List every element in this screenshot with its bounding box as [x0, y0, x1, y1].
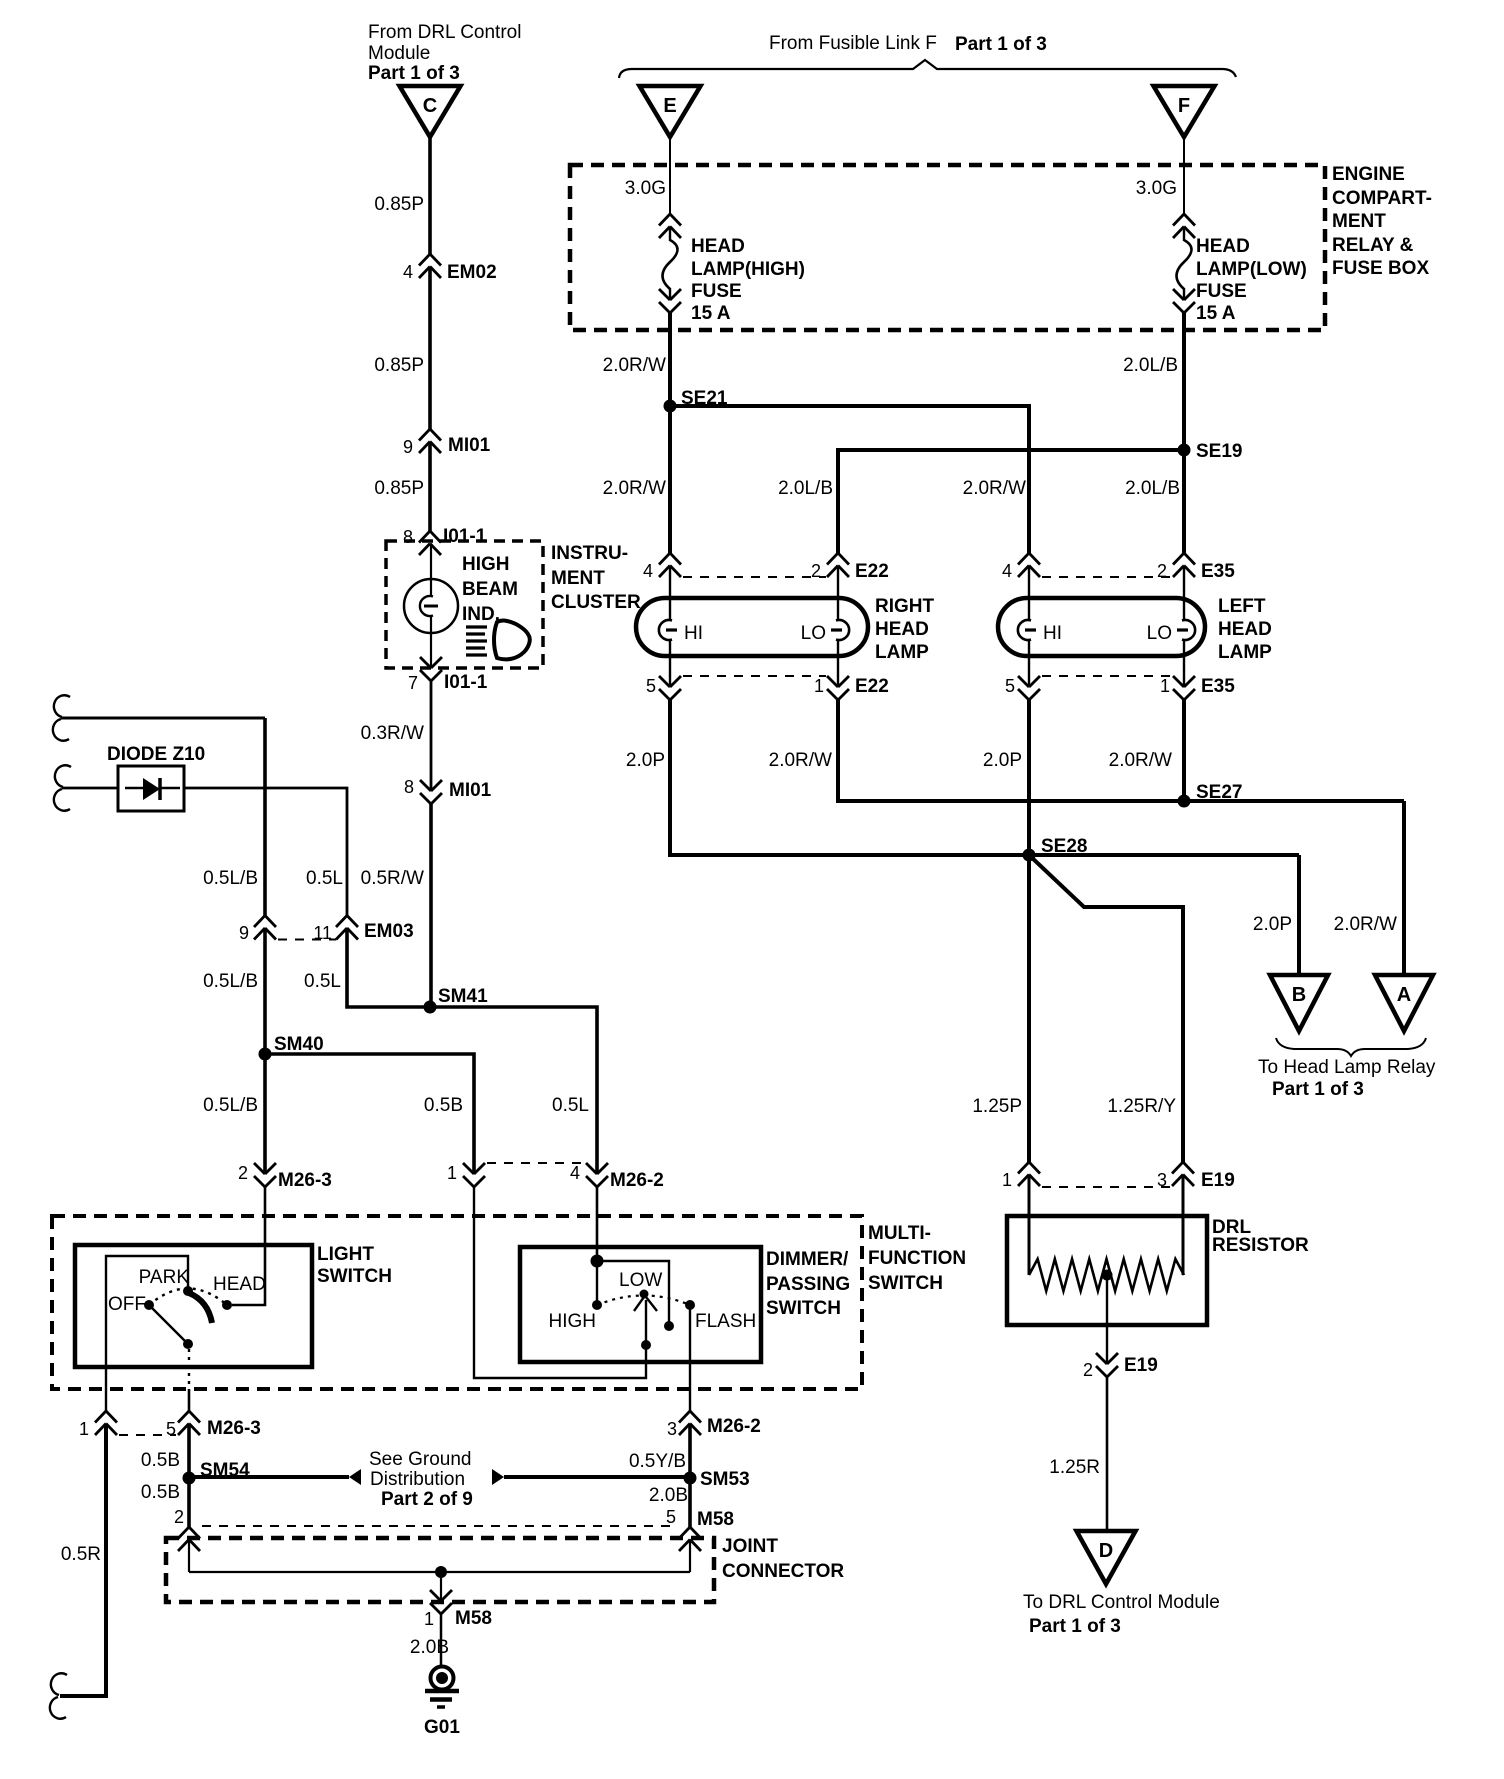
svg-text:1.25R/Y: 1.25R/Y — [1107, 1096, 1176, 1117]
svg-text:CONNECTOR: CONNECTOR — [722, 1561, 844, 1582]
brace from fusible link F — [619, 60, 1236, 78]
label 2.0R/W — [769, 750, 832, 771]
connector E22 pin 1 — [814, 676, 889, 700]
svg-text:FLASH: FLASH — [695, 1311, 756, 1332]
svg-text:PASSING: PASSING — [766, 1274, 850, 1295]
svg-text:0.5B: 0.5B — [424, 1095, 463, 1116]
svg-text:2: 2 — [238, 1163, 248, 1183]
svg-text:CLUSTER: CLUSTER — [551, 592, 641, 613]
svg-text:Part 1 of 3: Part 1 of 3 — [1029, 1616, 1121, 1637]
svg-text:Module: Module — [368, 43, 430, 64]
wire M26-3 pin2 to HEAD contact — [232, 1187, 265, 1305]
wire FLASH to M26-2 pin 3 — [689, 1305, 691, 1411]
label 2.0L/B — [778, 478, 833, 499]
wire 2.0L/B fuse to SE19 to E35 pin 2 — [1182, 311, 1186, 553]
svg-text:0.5Y/B: 0.5Y/B — [629, 1451, 686, 1472]
svg-text:7: 7 — [408, 673, 418, 693]
svg-text:C: C — [423, 95, 437, 117]
connector M26-2 pin 4 — [570, 1163, 664, 1191]
label 2.0P — [626, 750, 665, 771]
svg-text:LAMP: LAMP — [875, 642, 929, 663]
svg-text:LAMP(LOW): LAMP(LOW) — [1196, 259, 1307, 280]
svg-text:EM02: EM02 — [447, 262, 497, 283]
joint connector box — [166, 1538, 714, 1602]
label 0.85P — [374, 194, 424, 215]
svg-text:MI01: MI01 — [448, 435, 491, 456]
svg-text:LAMP: LAMP — [1218, 642, 1272, 663]
wire through left head lamp HI — [1028, 566, 1030, 688]
label 3.0G — [1136, 178, 1177, 199]
svg-text:HEAD: HEAD — [1218, 619, 1272, 640]
wire from page edge (upper) — [53, 695, 265, 740]
svg-text:RELAY &: RELAY & — [1332, 235, 1414, 256]
label HEAD LAMP(HIGH) FUSE 15 A — [691, 236, 805, 324]
svg-text:E35: E35 — [1201, 676, 1235, 697]
wire pole to M26-3 pin 5 — [188, 1349, 190, 1411]
connector M26-3 pin 2 — [238, 1163, 332, 1191]
svg-text:SM41: SM41 — [438, 986, 488, 1007]
svg-text:0.85P: 0.85P — [374, 478, 424, 499]
svg-text:SM53: SM53 — [700, 1469, 750, 1490]
wire 0.5B M26-3 pin5 to SM54 — [187, 1424, 191, 1528]
svg-text:M58: M58 — [455, 1608, 492, 1629]
svg-text:SWITCH: SWITCH — [317, 1266, 392, 1287]
connector E35 pin 2 — [1157, 553, 1235, 582]
svg-text:0.5L: 0.5L — [304, 971, 341, 992]
svg-text:HIGH: HIGH — [462, 554, 510, 575]
svg-text:2.0P: 2.0P — [626, 750, 665, 771]
svg-text:0.85P: 0.85P — [374, 355, 424, 376]
brace to head lamp relay — [1276, 1038, 1426, 1056]
label 2.0P — [1253, 914, 1292, 935]
svg-text:DIODE Z10: DIODE Z10 — [107, 744, 205, 765]
svg-text:3.0G: 3.0G — [625, 178, 666, 199]
node SM53 — [684, 1469, 750, 1490]
wire 0.5L/B to EM03 pin 9 — [263, 718, 267, 916]
svg-text:E: E — [663, 95, 676, 117]
svg-text:FUSE BOX: FUSE BOX — [1332, 258, 1429, 279]
label From Fusible Link F heading — [769, 33, 1047, 55]
svg-text:4: 4 — [570, 1163, 580, 1183]
svg-text:BEAM: BEAM — [462, 579, 518, 600]
label 1.25R — [1049, 1457, 1100, 1478]
wire wiper to M26-2 pin 1 — [474, 1187, 646, 1378]
wire junction to M58 pin 1 — [440, 1572, 442, 1601]
label From DRL Control Module heading — [368, 22, 521, 84]
svg-text:INSTRU-: INSTRU- — [551, 543, 628, 564]
tie E22 pins 5-1 — [683, 675, 826, 677]
bulb right head lamp HI — [659, 620, 703, 644]
label LEFT HEAD LAMP — [1218, 596, 1272, 663]
bulb left head lamp HI — [1018, 620, 1062, 644]
label LIGHT SWITCH — [317, 1244, 392, 1287]
wire 2.0R/W SE27 to A — [1402, 801, 1406, 975]
svg-text:M58: M58 — [697, 1509, 734, 1530]
label ENGINE COMPARTMENT RELAY & FUSE BOX — [1332, 164, 1432, 279]
svg-text:PARK: PARK — [139, 1267, 190, 1288]
wire 0.5L diode to EM03 pin 11 — [184, 788, 347, 916]
wire 2.0B M58 pin1 to G01 — [440, 1614, 443, 1666]
svg-text:HEAD: HEAD — [213, 1274, 266, 1295]
svg-text:COMPART-: COMPART- — [1332, 188, 1432, 209]
connector M58 pin 1 — [424, 1590, 492, 1629]
contact FLASH — [685, 1300, 756, 1332]
label 0.5B — [424, 1095, 463, 1116]
light switch box — [75, 1245, 312, 1367]
wire common to HIGH contact — [596, 1261, 598, 1305]
tie M26-3 pins 1-5 — [119, 1434, 176, 1436]
wire 0.5B SM40 to M26-2 pin 1 — [265, 1054, 474, 1174]
svg-text:0.5L/B: 0.5L/B — [203, 1095, 258, 1116]
svg-text:FUSE: FUSE — [691, 281, 742, 302]
connector M26-3 pin 5 — [166, 1411, 261, 1439]
instrument cluster box — [386, 541, 543, 668]
wire through left head lamp LO — [1183, 566, 1185, 688]
node SE19 — [1178, 441, 1243, 462]
label 0.5L — [552, 1095, 589, 1116]
svg-text:15 A: 15 A — [691, 303, 731, 324]
wire 0.5R/W MI01 to SM41 — [429, 804, 433, 1007]
engine compartment relay & fuse box — [570, 165, 1325, 330]
wire 0.5L EM03 to SM41 — [347, 928, 430, 1007]
label 0.5R — [61, 1544, 101, 1565]
wire 2.0R/W right lamp pin1 to SE27 — [838, 700, 1404, 801]
connector M26-2 pin 1 — [447, 1163, 485, 1187]
svg-text:0.5L: 0.5L — [306, 868, 343, 889]
wire 2.0L/B SE19 to E22 pin 2 — [838, 450, 1184, 553]
svg-text:1: 1 — [814, 676, 824, 696]
multi-function switch box — [52, 1216, 862, 1389]
svg-text:1: 1 — [447, 1163, 457, 1183]
connector M26-3 pin 1 — [79, 1411, 117, 1439]
connector M26-2 pin 3 — [667, 1411, 761, 1439]
svg-text:2.0R/W: 2.0R/W — [1334, 914, 1397, 935]
label 1.25R/Y — [1107, 1096, 1176, 1117]
contact PARK — [139, 1267, 193, 1296]
svg-text:0.5L/B: 0.5L/B — [203, 868, 258, 889]
svg-text:1: 1 — [1160, 676, 1170, 696]
contact HEAD — [213, 1274, 266, 1310]
right head lamp body — [636, 598, 868, 656]
connector MI01 pin 9 — [403, 429, 491, 457]
connector E22 pin 4 — [643, 553, 681, 581]
contact HIGH — [549, 1300, 603, 1332]
label 0.5B — [141, 1482, 180, 1503]
svg-text:M26-2: M26-2 — [707, 1416, 761, 1437]
svg-text:Part 1 of 3: Part 1 of 3 — [368, 63, 460, 84]
svg-text:SE27: SE27 — [1196, 782, 1242, 803]
svg-text:2.0L/B: 2.0L/B — [1123, 355, 1178, 376]
svg-text:Distribution: Distribution — [370, 1469, 465, 1490]
svg-text:0.5B: 0.5B — [141, 1482, 180, 1503]
wire 0.3R/W I01-1 to MI01 — [430, 681, 433, 791]
wire through right head lamp HI — [669, 566, 671, 688]
svg-text:HIGH: HIGH — [549, 1311, 597, 1332]
svg-text:A: A — [1397, 984, 1411, 1006]
svg-text:MENT: MENT — [551, 568, 605, 589]
label 2.0R/W — [603, 478, 666, 499]
svg-text:MI01: MI01 — [449, 780, 492, 801]
svg-text:3: 3 — [667, 1419, 677, 1439]
label See Ground Distribution — [369, 1449, 473, 1510]
svg-text:2.0B: 2.0B — [649, 1485, 688, 1506]
label 0.5R/W — [361, 868, 424, 889]
connector E35 pin 4 — [1002, 553, 1040, 581]
tie EM03 pins 9-11 — [278, 939, 336, 941]
svg-text:LO: LO — [801, 623, 826, 644]
svg-text:2.0B: 2.0B — [410, 1637, 449, 1658]
node joint connector junction — [435, 1566, 447, 1578]
svg-text:9: 9 — [403, 437, 413, 457]
dimmer selector arc — [597, 1296, 690, 1306]
svg-text:0.5L/B: 0.5L/B — [203, 971, 258, 992]
svg-text:SWITCH: SWITCH — [766, 1298, 841, 1319]
svg-text:HI: HI — [684, 623, 703, 644]
label 2.0R/W — [1334, 914, 1397, 935]
svg-text:DIMMER/: DIMMER/ — [766, 1249, 849, 1270]
wire 1.25R/Y SE28 branch to E19 pin 3 — [1029, 855, 1183, 1162]
svg-text:LIGHT: LIGHT — [317, 1244, 374, 1265]
label 0.5B — [141, 1450, 180, 1471]
label M58 — [697, 1509, 734, 1530]
svg-text:SWITCH: SWITCH — [868, 1273, 943, 1294]
label 0.3R/W — [361, 723, 424, 744]
label 0.5L — [306, 868, 343, 889]
svg-text:0.5L: 0.5L — [552, 1095, 589, 1116]
lamp high beam indicator — [404, 544, 458, 669]
label To Head Lamp Relay — [1258, 1057, 1436, 1100]
connector E35 pin 5 — [1005, 676, 1040, 700]
wire ground distribution to SM53 — [492, 1469, 690, 1485]
connector M58 pin 5 — [679, 1527, 701, 1551]
svg-text:5: 5 — [666, 1507, 676, 1527]
svg-text:MULTI-: MULTI- — [868, 1223, 931, 1244]
svg-text:See Ground: See Ground — [369, 1449, 471, 1470]
fuse HEAD LAMP(HIGH) 15A — [659, 214, 681, 313]
label 2.0R/W — [963, 478, 1026, 499]
label To DRL Control Module — [1023, 1592, 1220, 1637]
svg-text:2.0P: 2.0P — [983, 750, 1022, 771]
node resistor center tap — [1102, 1270, 1113, 1281]
svg-text:2.0L/B: 2.0L/B — [1125, 478, 1180, 499]
wire through right head lamp LO — [837, 566, 839, 688]
fuse HEAD LAMP(LOW) 15A — [1173, 214, 1195, 313]
tie E19 pins 1-3 — [1042, 1186, 1171, 1188]
label HIGH BEAM IND. — [462, 554, 518, 625]
svg-text:OFF: OFF — [108, 1294, 146, 1315]
light switch pole — [183, 1339, 193, 1349]
svg-text:Part 2 of 9: Part 2 of 9 — [381, 1489, 473, 1510]
svg-text:4: 4 — [1002, 561, 1012, 581]
wire SM54 to ground distribution — [189, 1469, 361, 1485]
svg-text:From Fusible Link F: From Fusible Link F — [769, 33, 937, 54]
svg-text:0.3R/W: 0.3R/W — [361, 723, 424, 744]
svg-text:HEAD: HEAD — [1196, 236, 1250, 257]
svg-text:SM40: SM40 — [274, 1034, 324, 1055]
label INSTRUMENT CLUSTER — [551, 543, 641, 613]
label 2.0R/W — [603, 355, 666, 376]
label 0.5Y/B — [629, 1451, 686, 1472]
contact LOW — [619, 1270, 662, 1299]
svg-text:F: F — [1178, 95, 1190, 117]
node SM40 — [259, 1034, 324, 1061]
icon high beam — [466, 621, 530, 660]
wire 2.0P SE28 to B — [1297, 855, 1301, 975]
svg-text:1: 1 — [79, 1419, 89, 1439]
label 0.5L/B — [203, 868, 258, 889]
connector EM03 pin 9 — [239, 916, 276, 943]
svg-text:M26-3: M26-3 — [278, 1170, 332, 1191]
svg-text:LO: LO — [1147, 623, 1172, 644]
svg-text:2.0R/W: 2.0R/W — [769, 750, 832, 771]
connector EM03 pin 11 — [313, 916, 413, 943]
wire E19 pin1 lead into resistor — [1028, 1175, 1031, 1276]
svg-text:E19: E19 — [1124, 1355, 1158, 1376]
connector E19 pin 1 — [1002, 1162, 1040, 1190]
svg-text:JOINT: JOINT — [722, 1536, 778, 1557]
label G01 — [424, 1717, 460, 1738]
light switch pole lever — [151, 1307, 188, 1344]
node SM54 — [183, 1460, 251, 1485]
svg-text:Part 1 of 3: Part 1 of 3 — [955, 34, 1047, 55]
tie E22 pins 4-2 — [683, 576, 826, 578]
wire 0.5L/B SM40 to M26-3 pin 2 — [263, 1054, 267, 1174]
light switch wiper — [189, 1293, 212, 1323]
wire 0.5L SM41 to M26-2 pin 4 — [430, 1007, 597, 1174]
tie M26-2 pins 1-4 — [487, 1162, 584, 1164]
wire 1.25R E19 pin2 to D — [1106, 1377, 1109, 1531]
wire M26-2 pin4 into dimmer — [596, 1187, 599, 1261]
svg-text:9: 9 — [239, 923, 249, 943]
svg-text:2.0R/W: 2.0R/W — [1109, 750, 1172, 771]
connector MI01 pin 8 — [404, 777, 492, 804]
connector F (from fusible link F) — [1154, 86, 1215, 137]
tie M58 pins 2-5 — [202, 1525, 677, 1527]
node SM41 — [424, 986, 489, 1014]
svg-text:0.5B: 0.5B — [141, 1450, 180, 1471]
wire 0.85P from MI01 to I01-1 — [428, 442, 432, 532]
svg-text:1: 1 — [424, 1609, 434, 1629]
bulb right head lamp LO — [801, 620, 849, 644]
wire into diode — [54, 765, 118, 810]
wire 3.0G from E to fuse — [669, 137, 671, 214]
label 2.0L/B — [1125, 478, 1180, 499]
svg-text:ENGINE: ENGINE — [1332, 164, 1405, 185]
svg-text:LEFT: LEFT — [1218, 596, 1266, 617]
label 0.5L/B — [203, 971, 258, 992]
diode Z10 — [118, 766, 184, 811]
svg-text:E22: E22 — [855, 561, 889, 582]
label DIODE Z10 — [107, 744, 205, 765]
ground G01 — [425, 1667, 459, 1708]
connector D (to DRL control module) — [1077, 1531, 1136, 1584]
svg-text:2: 2 — [1083, 1360, 1093, 1380]
svg-text:15 A: 15 A — [1196, 303, 1236, 324]
resistor DRL element — [1029, 1259, 1184, 1291]
svg-text:From DRL Control: From DRL Control — [368, 22, 521, 43]
wire E19 pin3 lead into resistor — [1182, 1175, 1185, 1276]
wire joint connector bus — [189, 1540, 690, 1573]
svg-text:IND.: IND. — [462, 604, 500, 625]
label RIGHT HEAD LAMP — [875, 596, 935, 663]
svg-text:0.85P: 0.85P — [374, 194, 424, 215]
connector B (to head lamp relay) — [1270, 975, 1328, 1031]
label pin 5 — [666, 1507, 676, 1527]
svg-text:To Head Lamp Relay: To Head Lamp Relay — [1258, 1057, 1436, 1078]
connector E (from fusible link F) — [640, 86, 701, 137]
connector C (from DRL Control Module) — [400, 86, 461, 137]
connector E22 pin 5 — [646, 676, 681, 700]
label 0.85P — [374, 355, 424, 376]
svg-text:3.0G: 3.0G — [1136, 178, 1177, 199]
wire 2.0R/W fuse to SE21 to E22 pin 4 — [668, 311, 672, 553]
svg-text:To DRL Control Module: To DRL Control Module — [1023, 1592, 1220, 1613]
connector M58 pin 2 — [178, 1527, 200, 1551]
wire 2.0P left lamp pin5 through SE28 to E19 pin1 — [1027, 700, 1031, 1162]
label 1.25P — [972, 1096, 1022, 1117]
connector E35 pin 1 — [1160, 676, 1235, 700]
wire PARK contact to M26-3 pin 1 — [106, 1256, 188, 1411]
contact OFF — [108, 1294, 154, 1315]
svg-text:1.25R: 1.25R — [1049, 1457, 1100, 1478]
label 0.5L — [304, 971, 341, 992]
svg-text:E35: E35 — [1201, 561, 1235, 582]
connector I01-1 pin 8 — [403, 526, 487, 555]
label JOINT CONNECTOR — [722, 1536, 844, 1582]
svg-text:4: 4 — [643, 561, 653, 581]
label MULTI-FUNCTION SWITCH — [868, 1223, 966, 1294]
connector I01-1 pin 7 — [408, 657, 488, 693]
connector E19 pin 3 — [1157, 1162, 1235, 1191]
node SE27 — [1178, 782, 1243, 808]
svg-text:2: 2 — [174, 1507, 184, 1527]
dimmer common node — [591, 1255, 604, 1268]
svg-text:5: 5 — [646, 676, 656, 696]
svg-text:G01: G01 — [424, 1717, 460, 1738]
tie E35 pins 5-1 — [1042, 675, 1172, 677]
node SE28 — [1023, 836, 1088, 862]
label pin 2 — [174, 1507, 184, 1527]
svg-text:I01-1: I01-1 — [444, 672, 488, 693]
svg-text:E22: E22 — [855, 676, 889, 697]
svg-text:0.5R: 0.5R — [61, 1544, 101, 1565]
svg-text:B: B — [1292, 984, 1306, 1006]
label 2.0R/W — [1109, 750, 1172, 771]
svg-text:MENT: MENT — [1332, 211, 1386, 232]
svg-text:0.5R/W: 0.5R/W — [361, 868, 424, 889]
svg-text:5: 5 — [1005, 676, 1015, 696]
label 2.0B — [649, 1485, 688, 1506]
node SE21 — [664, 388, 728, 413]
wire 2.0P right lamp pin5 to SE28 — [670, 700, 1299, 855]
svg-text:FUNCTION: FUNCTION — [868, 1248, 966, 1269]
label 2.0P — [983, 750, 1022, 771]
svg-text:E19: E19 — [1201, 1170, 1235, 1191]
svg-text:M26-3: M26-3 — [207, 1418, 261, 1439]
wire center tap to E19 pin 2 — [1106, 1275, 1108, 1364]
label HEAD LAMP(LOW) FUSE 15 A — [1196, 236, 1307, 324]
bulb left head lamp LO — [1147, 620, 1195, 644]
svg-text:8: 8 — [403, 527, 413, 547]
svg-text:2.0R/W: 2.0R/W — [603, 478, 666, 499]
label 2.0L/B — [1123, 355, 1178, 376]
dimmer passing switch box — [520, 1247, 761, 1362]
label 2.0B — [410, 1637, 449, 1658]
label 3.0G — [625, 178, 666, 199]
svg-text:D: D — [1099, 1540, 1113, 1562]
svg-text:SE19: SE19 — [1196, 441, 1242, 462]
svg-text:M26-2: M26-2 — [610, 1170, 664, 1191]
